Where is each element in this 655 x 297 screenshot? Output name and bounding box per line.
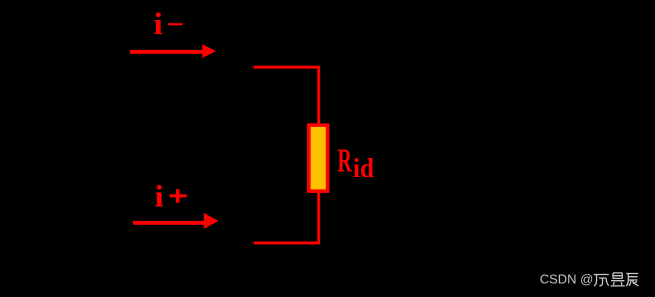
label Rid value: [338, 142, 375, 183]
watermark CSDN text: [540, 272, 594, 287]
watermark char 3 (chen): [626, 274, 639, 287]
wire bottom: [254, 190, 319, 243]
svg-text:i: i: [153, 7, 162, 41]
svg-text:CSDN @: CSDN @: [540, 272, 594, 287]
watermark char 1 (li): [594, 275, 609, 287]
watermark char 2 (yu): [611, 273, 625, 286]
resistor Rid: [309, 125, 328, 191]
svg-text:i: i: [155, 179, 164, 213]
wire top: [254, 67, 319, 126]
svg-text:id: id: [353, 153, 374, 183]
node i- label: [153, 7, 182, 41]
arrow i+ current: [133, 213, 219, 229]
arrow i- current: [130, 44, 216, 58]
svg-text:R: R: [338, 142, 353, 180]
node i+ label: [155, 179, 187, 213]
